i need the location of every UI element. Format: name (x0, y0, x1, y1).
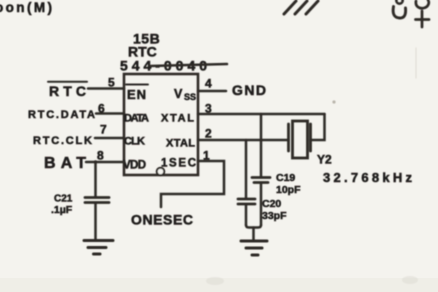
wire stub to ground (252, 228, 255, 241)
pin label DATA (124, 113, 149, 125)
net label GND (232, 82, 266, 98)
bump on IC bottom edge (157, 168, 165, 176)
pin label VDD (123, 160, 146, 172)
wire BAT junction down to C21 (94, 162, 97, 197)
wire pin2 net down to C20 (245, 140, 248, 198)
svg-text:GND: GND (232, 82, 266, 98)
net label RTC.DATA (28, 109, 95, 121)
label .1uF (51, 204, 73, 216)
svg-text:SS: SS (184, 92, 196, 102)
svg-text:ONESEC: ONESEC (131, 212, 193, 228)
pin number 3 (205, 102, 212, 116)
wire RTC to pin 5 (88, 87, 124, 90)
svg-text:8: 8 (97, 149, 104, 163)
capacitor C20 plates (238, 199, 255, 204)
wire pin3 net down to crystal right plate (311, 114, 325, 140)
pin label EN (with overline) (127, 87, 147, 102)
pin label 1SEC (161, 158, 196, 170)
svg-text:RTC: RTC (49, 83, 86, 99)
wire pin3 net down to C19 (260, 114, 263, 177)
svg-text:EN: EN (127, 87, 147, 102)
svg-text:VDD: VDD (123, 160, 146, 172)
svg-text:6: 6 (98, 102, 105, 116)
faint stray mark (332, 100, 335, 103)
svg-text:1SEC: 1SEC (161, 158, 196, 170)
wire C19 to ground join (260, 183, 263, 225)
crystal Y2 body (293, 121, 308, 158)
faint bottom smudges (206, 277, 224, 285)
svg-text:7: 7 (100, 123, 107, 137)
pin label XTAL (pin 2) (166, 138, 195, 150)
svg-text:1: 1 (203, 149, 210, 163)
wire RTC.CLK to pin 7 (95, 137, 124, 140)
svg-text:C21: C21 (54, 194, 73, 205)
label C20 (262, 198, 281, 210)
svg-text:DATA: DATA (124, 113, 149, 125)
crystal Y2 right plate (309, 124, 312, 151)
hatch marks /// (cropped handwriting, top middle-right) (284, 1, 318, 14)
wire BAT to pin 8 (86, 161, 124, 164)
junction node BAT/C21 (94, 160, 98, 164)
pin label VSS (174, 87, 196, 102)
svg-text:XTAL: XTAL (161, 113, 194, 125)
strike line through part number (150, 64, 227, 66)
wire pin 1 (1SEC) hook (161, 161, 224, 207)
net label RTC (active low, overline) (49, 83, 86, 99)
svg-text:10pF: 10pF (276, 184, 301, 196)
svg-text:oon(M): oon(M) (0, 0, 52, 15)
cropped glyph group top-right "Co" (396, 0, 402, 4)
pin number 4 (205, 77, 212, 91)
capacitor C21 plates (85, 198, 109, 203)
wire U-join of C19/C20 (246, 225, 261, 228)
wire C21 to ground (94, 203, 97, 240)
label part number 544-0040 (struck through) (120, 58, 207, 74)
ground (under C21) (84, 241, 113, 255)
svg-text:BAT: BAT (44, 155, 86, 172)
pin label CLK (124, 136, 145, 148)
net label RTC.CLK (33, 135, 92, 147)
svg-text:2: 2 (205, 127, 212, 141)
pin number 6 (98, 102, 105, 116)
wire pin 2 (XTAL) to crystal left plate (198, 139, 289, 142)
label 33pF (262, 210, 287, 222)
svg-text:Y2: Y2 (317, 153, 332, 167)
crystal Y2 left plate (287, 124, 290, 151)
svg-text:3: 3 (205, 102, 212, 116)
IC U? RTC chip body (124, 74, 198, 175)
svg-text:32.768kHz: 32.768kHz (323, 170, 413, 185)
label C21 (54, 194, 73, 205)
capacitor C19 plates (252, 178, 270, 183)
label 15B (sheet ref) (133, 31, 160, 47)
net label ONESEC (131, 212, 193, 228)
pin label XTAL (pin 3) (161, 113, 194, 125)
label 10pF (276, 184, 301, 196)
wire pin 3 (XTAL) horizontal (198, 113, 325, 116)
pin number 1 (203, 149, 210, 163)
svg-text:33pF: 33pF (262, 210, 287, 222)
svg-text:XTAL: XTAL (166, 138, 195, 150)
svg-text:RTC.DATA: RTC.DATA (28, 109, 95, 121)
label 32.768kHz (323, 170, 413, 185)
svg-text:4: 4 (205, 77, 212, 91)
wire RTC.DATA to pin 6 (96, 112, 124, 115)
cropped glyph group top-right "+5" (416, 0, 429, 8)
label C19 (276, 172, 295, 184)
net label BAT (44, 155, 86, 172)
wire C20 to ground join (245, 205, 248, 226)
wire pin 4 to GND label (198, 90, 226, 93)
label RTC (component name) (128, 44, 157, 60)
svg-text:C19: C19 (276, 172, 295, 184)
pin number 5 (108, 76, 115, 90)
label Y2 (317, 153, 332, 167)
pin number 7 (100, 123, 107, 137)
svg-text:5: 5 (108, 76, 115, 90)
svg-text:RTC.CLK: RTC.CLK (33, 135, 92, 147)
top-left cropped handwriting "oon(M)" (0, 0, 52, 15)
svg-text:C20: C20 (262, 198, 281, 210)
svg-text:.1µF: .1µF (51, 204, 73, 216)
pin number 2 (205, 127, 212, 141)
svg-text:CLK: CLK (124, 136, 145, 148)
svg-text:V: V (174, 87, 183, 101)
ground (under C19/C20) (241, 241, 267, 255)
pin number 8 (97, 149, 104, 163)
